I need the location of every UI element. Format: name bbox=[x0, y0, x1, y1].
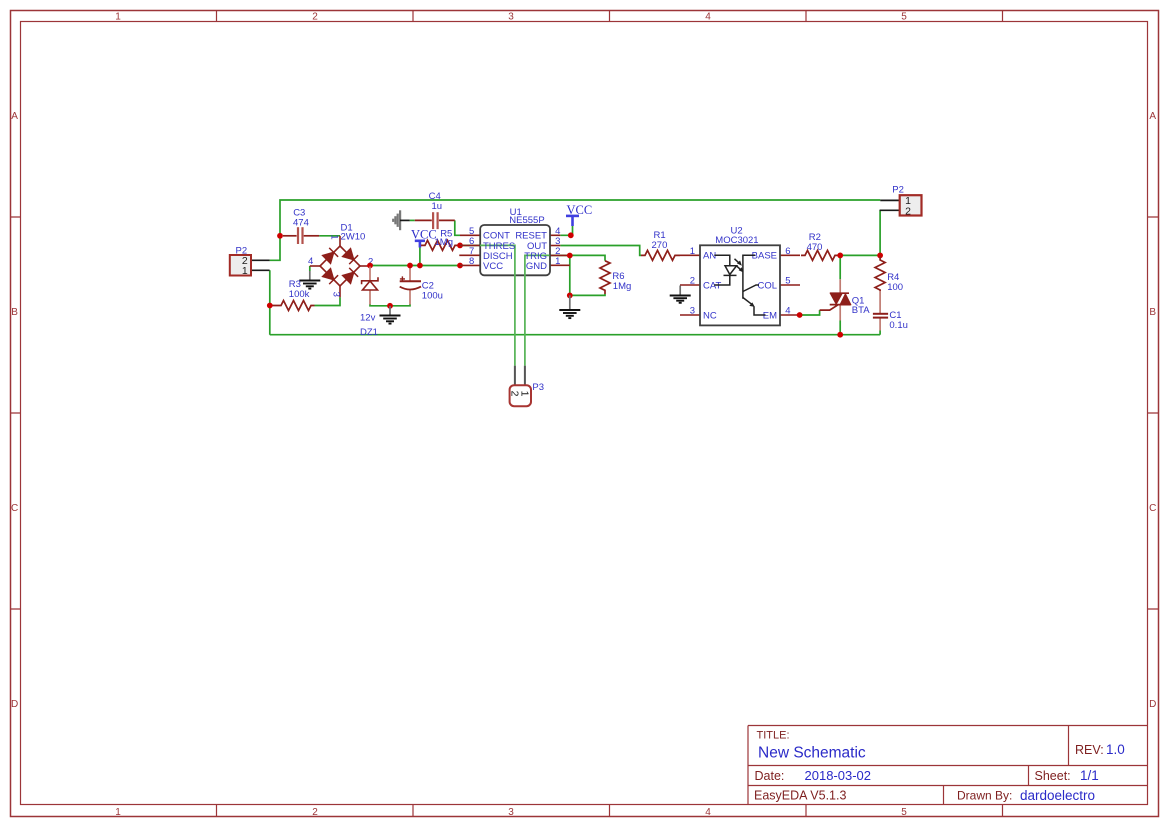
D1 pin1 lead bbox=[339, 236, 341, 246]
row letters left bbox=[11, 111, 18, 710]
svg-text:2: 2 bbox=[312, 807, 318, 818]
connector P2 (right) body bbox=[900, 195, 922, 215]
U2 emitter arrow head bbox=[749, 302, 755, 307]
svg-text:5: 5 bbox=[785, 276, 790, 287]
capacitor C1 plates bbox=[873, 314, 888, 318]
svg-text:B: B bbox=[11, 307, 18, 318]
svg-text:1: 1 bbox=[329, 234, 340, 239]
svg-text:1: 1 bbox=[242, 265, 248, 277]
capacitor C4 plates bbox=[433, 212, 438, 229]
connector P3 body bbox=[510, 385, 531, 406]
node junction rail end / U1 pin8 bbox=[457, 263, 463, 269]
svg-text:100: 100 bbox=[887, 282, 903, 293]
C2 bottom curved plate bbox=[400, 287, 421, 290]
svg-text:1: 1 bbox=[115, 807, 121, 818]
svg-text:1: 1 bbox=[690, 246, 695, 257]
svg-text:EM: EM bbox=[763, 310, 777, 321]
svg-text:P3: P3 bbox=[532, 382, 544, 393]
node junction EM pin bbox=[797, 312, 803, 318]
D1 pin4 lead bbox=[310, 265, 320, 267]
triac Q1 gate line bbox=[820, 305, 838, 310]
node junction TRIG bbox=[567, 253, 573, 259]
node junction triac bottom / rail bbox=[837, 332, 843, 338]
node junction R6 bottom / ground bbox=[567, 293, 573, 299]
resistor R4 (vertical) bbox=[875, 257, 885, 292]
chassis ground lead (black) bbox=[400, 219, 410, 221]
ground symbol below DZ1/C2 bbox=[389, 306, 391, 315]
triac Q1 bottom lead (light) bbox=[839, 305, 841, 321]
svg-text:2W10: 2W10 bbox=[341, 232, 366, 243]
resistor R5 bbox=[421, 240, 459, 250]
svg-text:470: 470 bbox=[807, 242, 823, 253]
IC U1 NE555P body bbox=[480, 225, 550, 275]
wire TRIG junction to R6 top bbox=[570, 255, 605, 260]
C2 top plate bbox=[400, 280, 421, 282]
node junction C3/P2/top-rail bbox=[277, 233, 283, 239]
wire THRES light-green through U1 down to P3 pin2 bbox=[480, 245, 550, 365]
node junction RESET/VCC bbox=[568, 232, 574, 238]
triac Q1 bottom bar bbox=[830, 304, 851, 306]
U2 internal transistor emitter to EM bbox=[754, 307, 766, 316]
svg-text:REV:: REV: bbox=[1075, 743, 1104, 757]
triac Q1 top bar bbox=[830, 292, 849, 294]
DZ1 triangle bbox=[363, 281, 378, 290]
IC U1 pin stubs left bbox=[459, 235, 480, 265]
tick marks right bbox=[1148, 217, 1159, 609]
VCC right T-symbol bbox=[566, 216, 579, 226]
D1 diode bottom-right (arrow to right corner) bbox=[343, 268, 358, 283]
wire top rail VCC-in: P2L pin2 up and across to P2R pin1 bbox=[270, 200, 881, 260]
node junction R5/THRES bbox=[457, 243, 463, 249]
title block REV divider bbox=[1068, 726, 1070, 766]
IC U1 pin stubs right bbox=[550, 235, 570, 265]
svg-text:474: 474 bbox=[293, 218, 309, 229]
tick marks top bbox=[217, 11, 1003, 22]
svg-text:BASE: BASE bbox=[752, 251, 777, 262]
node junction P2.1/R3/rail-drop bbox=[267, 303, 273, 309]
svg-text:100u: 100u bbox=[422, 291, 443, 302]
U2 light arrow heads bbox=[737, 261, 755, 307]
svg-text:0.1u: 0.1u bbox=[889, 320, 908, 331]
U2 internal transistor base line bbox=[743, 255, 755, 298]
svg-text:4: 4 bbox=[705, 807, 711, 818]
svg-text:Drawn By:: Drawn By: bbox=[957, 789, 1012, 803]
wire triac bottom to rail bbox=[839, 321, 841, 335]
svg-text:NE555P: NE555P bbox=[509, 215, 544, 226]
svg-text:TITLE:: TITLE: bbox=[757, 729, 790, 741]
svg-text:1/1: 1/1 bbox=[1080, 768, 1099, 783]
connector P2 (right) pin stubs bbox=[880, 200, 900, 210]
svg-text:NC: NC bbox=[703, 310, 717, 321]
wire R2 to R4 top junction bbox=[840, 254, 880, 256]
svg-text:1: 1 bbox=[115, 12, 121, 23]
wire mid rail D1.2 to U1 pin8 bbox=[369, 265, 461, 267]
wire P2R pin2 drop to R4 junction bbox=[879, 210, 881, 255]
svg-text:Sheet:: Sheet: bbox=[1035, 769, 1071, 783]
svg-text:New Schematic: New Schematic bbox=[758, 744, 866, 761]
D1 pin2 lead bbox=[360, 265, 369, 267]
svg-text:EasyEDA V5.1.3: EasyEDA V5.1.3 bbox=[754, 789, 846, 803]
wire TRIG stub overlay to junction bbox=[550, 254, 570, 256]
D1 diode top-right (arrow to right corner) bbox=[343, 249, 358, 264]
svg-text:8: 8 bbox=[469, 256, 474, 267]
svg-text:P2: P2 bbox=[892, 184, 904, 195]
resistor R6 (vertical) bbox=[600, 261, 610, 294]
node junction D1 pin2 / mid rail bbox=[367, 263, 373, 269]
wire OUT to R1 bbox=[560, 246, 641, 256]
U2 internal transistor collector bbox=[743, 285, 759, 292]
connector P3 pin stubs (gray) bbox=[515, 366, 525, 386]
svg-text:BTA: BTA bbox=[852, 305, 870, 316]
node junction VCC-left drop / rail bbox=[417, 263, 423, 269]
wire C4 left link bbox=[410, 219, 415, 221]
svg-text:1u: 1u bbox=[432, 201, 443, 212]
svg-text:2: 2 bbox=[690, 276, 695, 287]
DZ1 cathode bar with zener wings bbox=[362, 277, 378, 284]
U2 internal light arrow 1 bbox=[735, 259, 741, 264]
capacitor C1 bottom lead (light) bbox=[879, 318, 881, 331]
svg-text:B: B bbox=[1149, 307, 1156, 318]
node junction DZ1-C2 bottom / ground bbox=[387, 303, 393, 309]
resistor R3 bbox=[271, 301, 315, 311]
node junction R4 top / P2R drop bbox=[877, 253, 883, 259]
svg-text:1Mg: 1Mg bbox=[613, 281, 631, 292]
svg-text:CAT: CAT bbox=[703, 280, 721, 291]
wire D1 pin4 tick to ground bbox=[309, 266, 311, 271]
title block outline bbox=[748, 726, 1148, 805]
svg-text:4: 4 bbox=[785, 306, 790, 317]
svg-text:2: 2 bbox=[312, 12, 318, 23]
wire C4 right corner to U1 pin5 bbox=[455, 220, 460, 235]
zener diode DZ1 leads bbox=[369, 267, 371, 305]
title block Sheet divider bbox=[1028, 766, 1030, 786]
wire THRES from R5 junction to U1 box bbox=[460, 244, 480, 246]
svg-text:270: 270 bbox=[652, 240, 668, 251]
wire C1 bottom green part bbox=[879, 331, 881, 335]
resistor R1 bbox=[641, 250, 680, 260]
tick marks left bbox=[11, 217, 21, 609]
svg-text:1: 1 bbox=[519, 391, 531, 397]
U2 internal light arrow 2 bbox=[736, 266, 742, 271]
D1 diode bottom-left (arrow to bottom corner) bbox=[323, 269, 338, 284]
U2 internal LED cathode bar bbox=[724, 274, 737, 276]
svg-text:100k: 100k bbox=[289, 289, 310, 300]
wire triac top lead green part bbox=[839, 255, 841, 279]
resistor R2 bbox=[801, 250, 839, 260]
svg-text:C: C bbox=[11, 503, 18, 514]
svg-text:C: C bbox=[1149, 503, 1156, 514]
U2 internal LED triangle bbox=[725, 266, 737, 275]
svg-text:DZ1: DZ1 bbox=[360, 327, 378, 338]
title block row line 2 bbox=[748, 785, 1148, 787]
svg-text:1.0: 1.0 bbox=[1106, 742, 1125, 757]
svg-text:1: 1 bbox=[555, 256, 560, 267]
wire C3 to D1 pin1 bbox=[319, 235, 340, 237]
svg-text:3: 3 bbox=[508, 12, 514, 23]
U2 internal transistor emitter bbox=[743, 298, 753, 306]
ground symbol at D1 pin4 bbox=[309, 271, 311, 280]
C2 plus sign bbox=[400, 276, 405, 281]
column numbers bottom bbox=[115, 807, 907, 818]
triac Q1 right triangle (up) bbox=[840, 294, 851, 305]
svg-text:3: 3 bbox=[331, 292, 342, 297]
title block row line 1 bbox=[748, 765, 1148, 767]
TITLE BLOCK bbox=[748, 726, 1148, 805]
column numbers top bbox=[115, 12, 907, 23]
U2 internal LED anode line bbox=[714, 255, 765, 315]
svg-text:5: 5 bbox=[901, 12, 907, 23]
D1 pin3 lead bbox=[339, 286, 341, 297]
title block DrawnBy divider bbox=[943, 786, 945, 805]
triac Q1 left triangle (down) bbox=[830, 293, 842, 304]
node junction C2 top / rail bbox=[407, 263, 413, 269]
svg-text:A: A bbox=[11, 111, 18, 122]
ground symbol at U2 CAT bbox=[679, 286, 681, 296]
capacitor C4 leads bbox=[415, 219, 455, 221]
wire bottom rail bbox=[270, 334, 880, 336]
svg-text:C3: C3 bbox=[293, 207, 305, 218]
capacitor C3 plates bbox=[298, 227, 303, 244]
svg-text:3: 3 bbox=[508, 807, 514, 818]
wire EM to triac gate bbox=[800, 310, 820, 315]
wire TRIG light-green through U1 down to P3 pin1 bbox=[525, 255, 550, 365]
svg-text:MOC3021: MOC3021 bbox=[715, 235, 758, 246]
IC U2 MOC3021 body bbox=[700, 245, 780, 325]
svg-text:A: A bbox=[1149, 111, 1156, 122]
svg-text:2: 2 bbox=[905, 205, 911, 217]
chassis ground (gray) left of C4 bbox=[393, 210, 400, 230]
wire DZ1/C2 bottom link bbox=[370, 304, 410, 306]
svg-text:4: 4 bbox=[308, 256, 313, 267]
svg-text:3: 3 bbox=[690, 306, 695, 317]
capacitor C2 leads bbox=[409, 267, 411, 305]
tick marks bottom bbox=[217, 805, 1003, 817]
svg-text:GND: GND bbox=[526, 261, 547, 272]
IC U2 pin stubs left bbox=[680, 255, 700, 315]
svg-text:D: D bbox=[11, 699, 18, 710]
connector P2 (left) body bbox=[230, 255, 251, 276]
svg-text:COL: COL bbox=[757, 280, 777, 291]
IC U2 pin stubs right bbox=[780, 255, 800, 315]
capacitor C3 leads bbox=[283, 235, 319, 237]
row letters right bbox=[1149, 111, 1156, 710]
capacitor C1 top lead (light) bbox=[879, 291, 881, 313]
D1 diode top-left (arrow to top corner) bbox=[323, 248, 338, 263]
svg-text:Date:: Date: bbox=[755, 769, 785, 783]
wire R3 right to D1 pin3 bbox=[315, 297, 341, 305]
svg-text:1Mg: 1Mg bbox=[435, 237, 453, 248]
wire R6 bottom to ground junction bbox=[570, 294, 605, 295]
wire VCC left drop bbox=[419, 248, 421, 266]
svg-text:D: D bbox=[1149, 699, 1156, 710]
bridge rectifier D1 diamond outline bbox=[310, 236, 369, 297]
svg-text:5: 5 bbox=[901, 807, 907, 818]
wire RESET to VCC right bbox=[560, 226, 572, 235]
svg-text:12v: 12v bbox=[360, 312, 376, 323]
connector P2 (left) pin stubs bbox=[251, 260, 270, 270]
ground symbol below R6 bbox=[569, 295, 571, 309]
triac Q1 top lead (light) bbox=[839, 279, 841, 293]
VCC left T-symbol bbox=[415, 241, 425, 248]
svg-text:4: 4 bbox=[705, 12, 711, 23]
svg-text:2018-03-02: 2018-03-02 bbox=[805, 768, 872, 783]
wire GND vertical junction column bbox=[569, 258, 571, 296]
node junction R2 / triac column bbox=[837, 253, 843, 259]
svg-text:dardoelectro: dardoelectro bbox=[1020, 788, 1095, 803]
svg-text:6: 6 bbox=[785, 246, 790, 257]
wire P2L pin1 down to bottom rail bbox=[269, 270, 271, 334]
U2 internal LED cathode line to CAT bbox=[714, 275, 730, 285]
svg-text:VCC: VCC bbox=[483, 261, 503, 272]
